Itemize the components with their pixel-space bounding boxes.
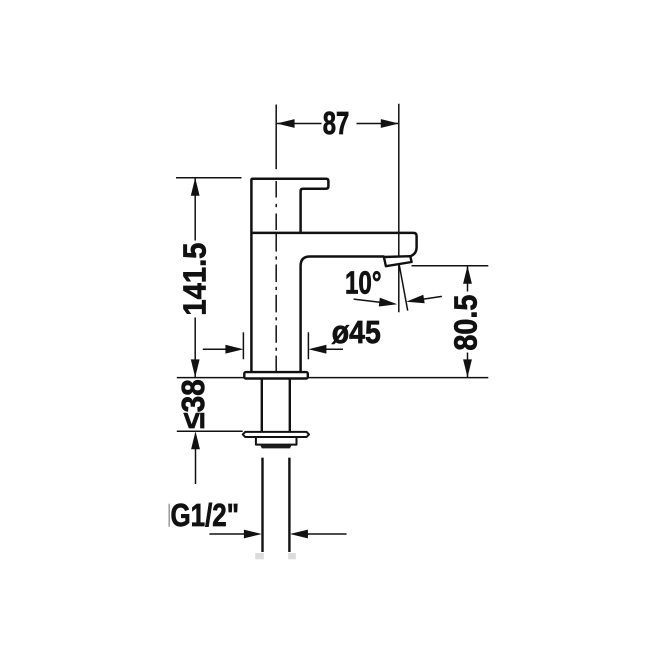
svg-text:≤38: ≤38 <box>175 379 211 429</box>
svg-text:80.5: 80.5 <box>447 295 483 351</box>
svg-text:10°: 10° <box>345 265 382 301</box>
svg-text:ø45: ø45 <box>332 314 381 350</box>
svg-text:87: 87 <box>323 105 350 141</box>
svg-text:G1/2": G1/2" <box>171 497 240 533</box>
svg-text:141.5: 141.5 <box>177 243 213 316</box>
